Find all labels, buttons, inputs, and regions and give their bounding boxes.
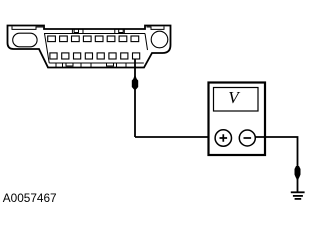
pin row 1 (top, pins 1-8) — [48, 36, 139, 42]
top bar lower edge — [44, 33, 145, 35]
bottom band tab A — [66, 63, 73, 66]
recess bottom line — [49, 62, 144, 64]
pin recess inner outline — [45, 34, 148, 64]
minus terminal — [239, 130, 255, 146]
wire: pin 16 down to junction — [134, 60, 136, 138]
left ear slot hole — [13, 33, 37, 47]
wire: horizontal to voltmeter plus terminal — [135, 136, 215, 138]
connector right ear inner contour — [147, 27, 165, 30]
connector left ear inner contour — [12, 26, 43, 29]
right ear round hole — [151, 31, 168, 48]
voltmeter U1 case — [209, 83, 266, 156]
pin row 2 (bottom, pins 9-16) — [50, 53, 140, 59]
bottom band tab B — [107, 63, 114, 66]
plus terminal — [215, 130, 231, 146]
top bar tab 2 — [115, 29, 125, 33]
bottom band ticks — [56, 63, 126, 68]
probe arrow down at ground lead — [295, 166, 301, 181]
connector J1 (16-pin data link connector) outer shell — [8, 26, 171, 68]
probe arrow up at pin 16 — [132, 75, 138, 90]
svg-text:A0057467: A0057467 — [3, 191, 57, 205]
voltmeter display window — [214, 88, 259, 112]
top bar tab 1 — [72, 29, 83, 33]
wire: minus terminal to ground drop — [255, 137, 297, 166]
ground symbol G1 — [291, 192, 305, 199]
wire: to ground bar — [297, 178, 299, 192]
